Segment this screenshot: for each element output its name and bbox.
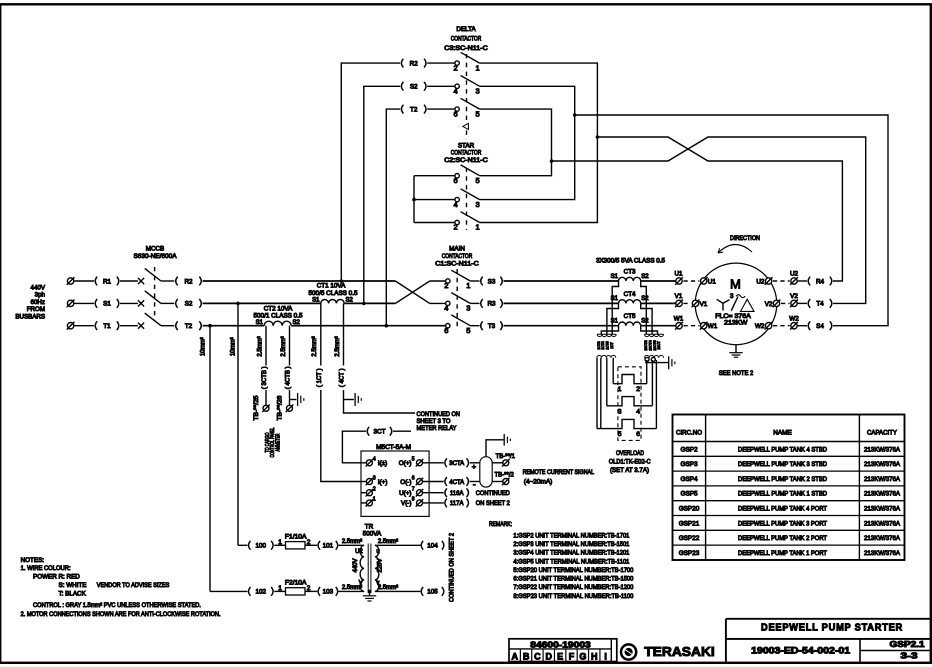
svg-text:213KW/376A: 213KW/376A (864, 535, 901, 542)
svg-text:3: 3 (476, 200, 480, 209)
svg-text:U1: U1 (708, 278, 717, 285)
svg-text:2.5mm²: 2.5mm² (281, 336, 287, 356)
svg-text:I(±): I(±) (378, 460, 387, 467)
svg-text:OVERLOAD: OVERLOAD (616, 450, 644, 457)
svg-text:1: 1 (278, 539, 282, 546)
svg-text:W1: W1 (674, 315, 684, 322)
svg-text:2.5mm²: 2.5mm² (378, 539, 398, 545)
svg-text:U2: U2 (355, 549, 363, 555)
svg-text:S2: S2 (410, 84, 418, 91)
svg-text:REMOTE CURRENT SIGNAL: REMOTE CURRENT SIGNAL (523, 469, 595, 476)
svg-text:I: I (604, 652, 607, 662)
svg-text:V1: V1 (700, 301, 708, 308)
svg-text:CONTROL : GRAY 1.5mm² PVC UNLE: CONTROL : GRAY 1.5mm² PVC UNLESS OTHERWI… (33, 602, 201, 609)
svg-text:3CTA: 3CTA (449, 461, 464, 467)
svg-text:10CT3: 10CT3 (644, 340, 648, 350)
svg-text:DEEPWELL PUMP TANK 4 STBD: DEEPWELL PUMP TANK 4 STBD (738, 446, 827, 453)
svg-text:2: 2 (373, 487, 376, 493)
svg-text:TB-**/1: TB-**/1 (496, 454, 516, 460)
svg-text:R1: R1 (103, 278, 112, 285)
svg-text:V2: V2 (765, 301, 773, 308)
svg-text:DELTA: DELTA (456, 26, 476, 33)
svg-text:M: M (730, 276, 741, 291)
svg-text:19003-ED-54-002-01: 19003-ED-54-002-01 (751, 646, 850, 656)
svg-text:TERASAKI: TERASAKI (644, 644, 715, 659)
svg-text:1CT4: 1CT4 (601, 341, 605, 349)
svg-text:T2: T2 (185, 323, 193, 330)
svg-text:CONTACTOR: CONTACTOR (442, 253, 473, 260)
svg-text:213KW: 213KW (724, 319, 747, 326)
svg-text:(4~20mA): (4~20mA) (524, 479, 553, 486)
svg-text:S2: S2 (641, 296, 649, 302)
svg-text:DIRECTION: DIRECTION (730, 235, 760, 242)
svg-text:-: - (473, 480, 476, 490)
svg-text:GSP2.1: GSP2.1 (890, 640, 926, 649)
svg-text:S1: S1 (312, 297, 320, 303)
svg-text:T4: T4 (816, 301, 824, 308)
svg-text:S: WHITE: S: WHITE (59, 582, 87, 589)
svg-text:GSP4: GSP4 (680, 476, 697, 483)
svg-text:440V: 440V (31, 284, 46, 291)
svg-text:10CT: 10CT (657, 341, 661, 349)
svg-text:1: 1 (466, 281, 470, 290)
svg-text:4: 4 (454, 200, 458, 209)
svg-text:213KW/376A: 213KW/376A (864, 491, 901, 498)
svg-text:2: 2 (444, 281, 448, 290)
svg-text:( 1CT ): ( 1CT ) (317, 369, 323, 388)
svg-text:4: 4 (373, 457, 376, 463)
svg-text:2: 2 (454, 223, 458, 232)
svg-text:R3: R3 (487, 301, 496, 308)
svg-text:10CT5: 10CT5 (653, 340, 657, 350)
svg-text:S1: S1 (256, 320, 264, 326)
svg-text:1: 1 (476, 223, 480, 232)
svg-text:3: 3 (466, 304, 470, 313)
svg-text:1: 1 (476, 63, 480, 72)
svg-text:500/1 CLASS 0.5: 500/1 CLASS 0.5 (254, 312, 303, 319)
svg-text:D: D (546, 652, 553, 662)
svg-text:1. WIRE COLOUR:: 1. WIRE COLOUR: (21, 565, 71, 572)
svg-text:2.5mm²: 2.5mm² (335, 336, 341, 356)
svg-text:116A: 116A (450, 491, 464, 497)
svg-text:NOTES:: NOTES: (21, 557, 45, 564)
svg-text:VENDOR TO ADVISE SIZES: VENDOR TO ADVISE SIZES (97, 582, 170, 589)
svg-text:S2: S2 (293, 320, 301, 326)
svg-text:103: 103 (323, 589, 334, 596)
svg-text:O(+): O(+) (399, 460, 412, 467)
svg-text:3-3: 3-3 (901, 651, 919, 660)
svg-text:3: 3 (373, 475, 376, 481)
svg-text:3:GSP4 UNIT TERMINAL NUMBER:TB: 3:GSP4 UNIT TERMINAL NUMBER:TB-1201 (513, 550, 629, 557)
svg-text:R: RED: R: RED (59, 574, 81, 581)
svg-text:6: 6 (454, 176, 458, 185)
svg-text:F2/10A: F2/10A (285, 580, 307, 587)
svg-text:2.5mm²: 2.5mm² (342, 585, 362, 591)
svg-text:+: + (472, 462, 477, 471)
svg-text:2: 2 (454, 63, 458, 72)
svg-text:3CT: 3CT (374, 429, 386, 436)
svg-text:2.5mm²: 2.5mm² (342, 539, 362, 545)
svg-text:DEEPWELL PUMP STARTER: DEEPWELL PUMP STARTER (761, 622, 903, 633)
svg-text:101: 101 (323, 543, 334, 550)
svg-text:U2: U2 (756, 278, 765, 285)
svg-text:C2:SC-N11-C: C2:SC-N11-C (444, 157, 488, 164)
svg-text:105: 105 (427, 589, 438, 596)
svg-text:S1: S1 (103, 301, 111, 308)
svg-text:C1:SC-N11-C: C1:SC-N11-C (435, 260, 479, 267)
svg-text:T1: T1 (103, 323, 111, 330)
svg-text:R4: R4 (816, 278, 825, 285)
svg-text:S2: S2 (346, 297, 354, 303)
svg-text:213KW/376A: 213KW/376A (864, 520, 901, 527)
svg-text:GSP5: GSP5 (680, 491, 697, 498)
svg-text:CONTINUED: CONTINUED (476, 490, 510, 497)
svg-text:( 4CT ): ( 4CT ) (340, 369, 346, 388)
svg-text:2.5mm²: 2.5mm² (258, 336, 264, 356)
svg-text:SEE NOTE 2: SEE NOTE 2 (719, 370, 754, 377)
svg-text:MAIN: MAIN (449, 246, 465, 253)
svg-text:2:GSP3 UNIT TERMINAL NUMBER:TB: 2:GSP3 UNIT TERMINAL NUMBER:TB-1501 (513, 541, 629, 548)
svg-text:MCCB: MCCB (146, 246, 165, 253)
svg-text:U1: U1 (674, 271, 683, 278)
svg-text:GSP21: GSP21 (679, 520, 700, 527)
svg-text:6: 6 (454, 109, 458, 118)
svg-text:10mm²: 10mm² (201, 337, 207, 356)
svg-text:DEEPWELL PUMP TANK 3 PORT: DEEPWELL PUMP TANK 3 PORT (738, 520, 827, 527)
svg-text:2.5mm²: 2.5mm² (378, 585, 398, 591)
svg-text:S3: S3 (488, 278, 496, 285)
svg-text:4: 4 (636, 408, 640, 415)
svg-text:U2: U2 (790, 271, 799, 278)
svg-text:I(+): I(+) (378, 479, 388, 486)
svg-text:R2: R2 (410, 60, 419, 67)
svg-text:C: C (534, 652, 541, 662)
svg-text:GSP3: GSP3 (680, 461, 697, 468)
svg-text:4:GSP5 UNIT TERMINAL NUMBER:TB: 4:GSP5 UNIT TERMINAL NUMBER:TB-1101 (513, 558, 629, 565)
svg-text:CT4: CT4 (624, 291, 636, 298)
svg-text:1: 1 (278, 585, 282, 592)
svg-text:2. MOTOR CONNECTIONS SHOWN ARE: 2. MOTOR CONNECTIONS SHOWN ARE FOR ANTI-… (21, 611, 221, 618)
svg-text:S2: S2 (641, 319, 649, 325)
svg-text:7: 7 (412, 487, 415, 493)
svg-text:1CT5: 1CT5 (606, 341, 610, 349)
svg-text:1CT: 1CT (610, 342, 614, 348)
svg-text:213KW/376A: 213KW/376A (864, 476, 901, 483)
svg-text:u: u (376, 549, 379, 555)
svg-text:GSP22: GSP22 (679, 535, 700, 542)
svg-text:5: 5 (412, 457, 415, 463)
svg-text:CONTACTOR: CONTACTOR (451, 150, 482, 157)
svg-text:G: G (579, 652, 586, 662)
svg-text:213KW/376A: 213KW/376A (864, 446, 901, 453)
svg-text:C3:SC-N11-C: C3:SC-N11-C (444, 45, 488, 52)
svg-text:5: 5 (476, 176, 480, 185)
svg-text:10mm²: 10mm² (230, 337, 236, 356)
svg-text:DEEPWELL PUMP TANK 1 STBD: DEEPWELL PUMP TANK 1 STBD (738, 491, 827, 498)
svg-text:1CT3: 1CT3 (597, 341, 601, 349)
svg-text:TB-**/2: TB-**/2 (495, 472, 515, 478)
svg-text:E: E (557, 652, 563, 662)
svg-text:NAME: NAME (773, 430, 791, 437)
svg-text:F1/10A: F1/10A (285, 533, 307, 540)
svg-text:CT3: CT3 (624, 268, 636, 275)
svg-text:R2: R2 (184, 278, 193, 285)
svg-text:CIRC.NO: CIRC.NO (676, 430, 702, 437)
svg-text:S630-NE/600A: S630-NE/600A (134, 253, 178, 260)
svg-text:6: 6 (412, 475, 415, 481)
svg-text:GSP2: GSP2 (680, 446, 697, 453)
svg-text:V2: V2 (790, 293, 798, 300)
svg-text:10CT4: 10CT4 (648, 340, 652, 350)
svg-text:T2: T2 (410, 106, 418, 113)
svg-text:FROM: FROM (27, 306, 45, 313)
svg-text:5:GSP20 UNIT TERMINAL NUMBER:T: 5:GSP20 UNIT TERMINAL NUMBER:TB-1700 (513, 567, 633, 574)
svg-text:S2: S2 (641, 274, 649, 280)
svg-text:S2: S2 (185, 301, 193, 308)
svg-text:W2: W2 (755, 323, 765, 330)
svg-text:S4: S4 (816, 323, 824, 330)
svg-text:S1: S1 (611, 274, 619, 280)
svg-text:POWER: POWER (33, 574, 57, 581)
svg-text:AMMETER: AMMETER (275, 434, 281, 452)
svg-text:CONTACTOR: CONTACTOR (451, 36, 482, 43)
svg-text:2: 2 (636, 386, 640, 393)
svg-text:4: 4 (454, 87, 458, 96)
svg-text:3X300/5 5VA CLASS 0.5: 3X300/5 5VA CLASS 0.5 (596, 258, 665, 265)
svg-text:METER RELAY: METER RELAY (417, 425, 458, 432)
svg-text:CT1 10VA: CT1 10VA (317, 283, 346, 290)
svg-text:CT5: CT5 (624, 313, 636, 320)
svg-text:GSP20: GSP20 (679, 506, 700, 513)
svg-text:1: 1 (373, 497, 376, 503)
svg-text:A: A (511, 652, 518, 662)
svg-text:213KW/376A: 213KW/376A (864, 461, 901, 468)
svg-text:T3: T3 (488, 323, 496, 330)
svg-text:W1: W1 (708, 323, 718, 330)
svg-text:CONTINUED ON SHEET 2: CONTINUED ON SHEET 2 (449, 532, 455, 602)
svg-text:V1: V1 (675, 293, 683, 300)
svg-text:O(-): O(-) (400, 479, 411, 486)
svg-text:F: F (569, 652, 575, 662)
svg-text:3: 3 (730, 293, 734, 300)
svg-text:4: 4 (444, 304, 448, 313)
svg-text:V(-): V(-) (401, 500, 412, 507)
svg-text:2.5mm²: 2.5mm² (312, 336, 318, 356)
svg-text:DEEPWELL PUMP TANK 3 STBD: DEEPWELL PUMP TANK 3 STBD (738, 461, 827, 468)
svg-text:M5CT-5A-M: M5CT-5A-M (376, 444, 411, 451)
svg-text:104: 104 (427, 543, 438, 550)
svg-text:4CTA: 4CTA (449, 480, 464, 486)
svg-text:7:GSP22 UNIT TERMINAL NUMBER:T: 7:GSP22 UNIT TERMINAL NUMBER:TB-1200 (513, 584, 633, 591)
svg-text:117A: 117A (450, 501, 464, 507)
svg-text:8:GSP23 UNIT TERMINAL NUMBER:T: 8:GSP23 UNIT TERMINAL NUMBER:TB-1100 (513, 593, 633, 600)
svg-text:5: 5 (466, 326, 470, 335)
svg-text:GSP23: GSP23 (679, 550, 700, 557)
svg-text:60Hz: 60Hz (31, 299, 45, 306)
svg-text:( 4CTB ): ( 4CTB ) (286, 366, 292, 389)
svg-text:B: B (523, 652, 530, 662)
svg-text:TB-**/25: TB-**/25 (254, 395, 260, 421)
svg-text:(SET AT 3.7A): (SET AT 3.7A) (610, 467, 649, 474)
svg-text:U(+): U(+) (399, 490, 411, 497)
svg-text:BUSBARS: BUSBARS (15, 313, 45, 320)
svg-text:440V: 440V (353, 558, 359, 572)
svg-text:T: BLACK: T: BLACK (59, 591, 87, 598)
svg-text:102: 102 (256, 589, 267, 596)
svg-text:REMARK:: REMARK: (489, 521, 512, 528)
svg-text:TB-**/26: TB-**/26 (278, 395, 284, 421)
svg-text:DEEPWELL PUMP TANK 2 STBD: DEEPWELL PUMP TANK 2 STBD (738, 476, 827, 483)
svg-text:ON SHEET 2: ON SHEET 2 (476, 500, 510, 507)
svg-text:CAPACITY: CAPACITY (867, 430, 898, 437)
svg-text:213KW/376A: 213KW/376A (864, 506, 901, 513)
svg-text:DEEPWELL PUMP TANK 2 PORT: DEEPWELL PUMP TANK 2 PORT (738, 535, 827, 542)
svg-text:6: 6 (444, 326, 448, 335)
svg-text:5: 5 (476, 109, 480, 118)
svg-text:500/5 CLASS 0.5: 500/5 CLASS 0.5 (309, 290, 358, 297)
svg-text:H: H (591, 652, 598, 662)
svg-text:DEEPWELL PUMP TANK 1 PORT: DEEPWELL PUMP TANK 1 PORT (738, 550, 827, 557)
svg-text:SHEET 3 TO: SHEET 3 TO (417, 418, 451, 425)
svg-text:213KW/376A: 213KW/376A (864, 550, 901, 557)
svg-text:6:GSP21 UNIT TERMINAL NUMBER:T: 6:GSP21 UNIT TERMINAL NUMBER:TB-1500 (513, 576, 633, 583)
svg-text:100: 100 (256, 543, 267, 550)
svg-text:( 3CTB ): ( 3CTB ) (262, 366, 268, 389)
svg-text:3: 3 (476, 87, 480, 96)
svg-text:3ph: 3ph (35, 292, 46, 299)
svg-text:OLD1:TK-E02-C: OLD1:TK-E02-C (609, 459, 651, 466)
svg-text:220V: 220V (378, 558, 384, 572)
svg-text:W2: W2 (789, 315, 799, 322)
svg-text:DEEPWELL PUMP TANK 4 PORT: DEEPWELL PUMP TANK 4 PORT (738, 506, 827, 513)
svg-text:1:GSP2 UNIT TERMINAL NUMBER:TB: 1:GSP2 UNIT TERMINAL NUMBER:TB-1701 (513, 533, 629, 540)
svg-text:6: 6 (636, 431, 640, 438)
svg-text:STAR: STAR (458, 143, 475, 150)
svg-text:84600-19003: 84600-19003 (530, 639, 591, 649)
svg-text:8: 8 (412, 497, 415, 503)
svg-text:CONTINUED ON: CONTINUED ON (417, 411, 461, 418)
svg-text:500VA: 500VA (363, 531, 382, 538)
